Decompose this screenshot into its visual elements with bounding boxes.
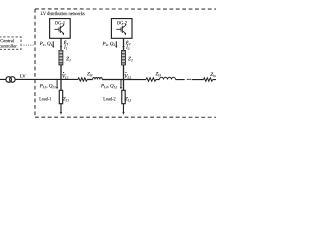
label: Central controller (0, 38, 17, 48)
wire bus node 1 to Zl2 (61, 78, 78, 80)
current arrow I1 (60, 46, 62, 49)
wire ZL2 down with arrow (122, 104, 124, 115)
wire node 1 to ZL1 (60, 79, 62, 90)
IGBT Q1 emitter arrow (62, 33, 64, 34)
svg-text:Load-2: Load-2 (103, 97, 116, 102)
wire coil to ellipsis (175, 79, 184, 81)
wire ellipsis to Zln (192, 79, 204, 81)
svg-text:P1, Q1: P1, Q1 (39, 42, 53, 47)
wire resistor to coil (87, 78, 92, 80)
svg-text:Load-1: Load-1 (39, 97, 51, 102)
DG-2 box (111, 19, 132, 39)
wire bus transformer to node 1 (15, 78, 61, 80)
wire Z2 to bus node 2 (122, 65, 124, 79)
central controller box (0, 37, 21, 49)
current arrow I2 (122, 46, 124, 49)
wire bus node 2 to Zl3 (123, 79, 146, 81)
arrow PL2 QL2 down (120, 80, 122, 90)
ellipsis on bus (187, 79, 191, 80)
wire DG-2 output (123, 38, 125, 50)
resistor Zl3 part (146, 78, 156, 81)
wire bus from left edge (0, 78, 6, 80)
DG-1 box (50, 19, 71, 39)
arrow P2 Q2 down (115, 41, 117, 48)
IGBT Q2 (116, 24, 125, 35)
wire node 2 to ZL2 (122, 80, 124, 91)
impedance Z1 (hatched) (59, 50, 63, 65)
resistor Zln (203, 78, 212, 81)
inductor Zl2 part (93, 77, 103, 79)
svg-text:ZL1: ZL1 (63, 97, 70, 102)
dotted signal line (24, 45, 34, 46)
arrow P1 Q1 down (52, 41, 54, 48)
svg-text:LV distribution networks: LV distribution networks (41, 12, 85, 17)
svg-text:PL2, QL2: PL2, QL2 (100, 84, 118, 89)
svg-text:PL1, QL1: PL1, QL1 (39, 84, 57, 89)
svg-text:P2, Q2: P2, Q2 (102, 42, 116, 47)
IGBT Q1 (54, 24, 63, 35)
svg-text:Central: Central (0, 38, 15, 43)
transformer T1 (6, 77, 15, 83)
wire Zln to right edge (213, 79, 216, 81)
svg-text:ZL2: ZL2 (125, 98, 132, 103)
wire Z1 to bus node 1 (60, 65, 62, 80)
svg-text:LV: LV (20, 75, 26, 80)
wire resistor to coil Zl3 (156, 79, 160, 81)
impedance ZL1 (59, 90, 62, 103)
LV distribution networks boundary box (35, 9, 216, 117)
IGBT Q2 emitter arrow (124, 33, 126, 34)
inductor Zl3 part (159, 77, 175, 79)
wire coil to node 2 (102, 78, 123, 80)
impedance Z2 (hatched) (121, 50, 125, 65)
wire ZL1 down with arrow (60, 104, 62, 115)
svg-text:controller: controller (0, 43, 17, 48)
impedance ZL2 (122, 90, 125, 103)
resistor Zl2 part (78, 78, 87, 81)
arrow PL1 QL1 down (56, 80, 58, 90)
wire DG-1 output (60, 38, 62, 50)
